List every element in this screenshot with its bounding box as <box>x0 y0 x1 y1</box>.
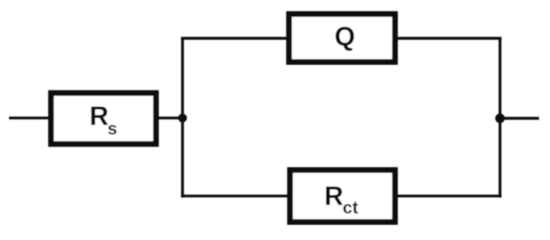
wire top branch right <box>395 37 502 40</box>
svg-text:R: R <box>90 101 109 131</box>
svg-text:R: R <box>324 181 343 211</box>
resistor Rct <box>290 170 395 222</box>
svg-text:ct: ct <box>343 198 359 218</box>
resistor Rs <box>51 93 156 144</box>
wire right lead <box>500 117 539 120</box>
CPE Q <box>289 14 395 62</box>
svg-text:s: s <box>108 119 118 139</box>
wire Rs to node A <box>156 117 183 120</box>
node A junction dot <box>178 114 187 123</box>
wire bottom branch right <box>395 195 502 198</box>
node B junction dot <box>495 114 505 124</box>
svg-text:Q: Q <box>335 22 356 52</box>
wire bottom branch left <box>181 195 290 198</box>
wire top branch left <box>181 37 289 40</box>
wire right vertical branch <box>499 37 502 198</box>
wire left vertical branch <box>181 37 184 198</box>
wire left lead <box>9 117 51 120</box>
